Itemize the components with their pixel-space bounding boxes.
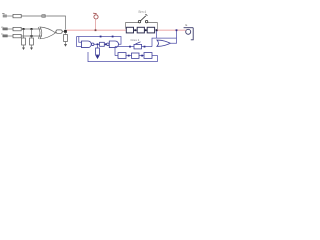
- relay contact bypass wire: [126, 23, 158, 30]
- junction node B: [31, 35, 33, 37]
- relay coil RL2: [137, 27, 144, 33]
- junction node A: [23, 28, 25, 30]
- resistor R1: [13, 14, 21, 17]
- resistor R2: [13, 27, 21, 30]
- wire S3 to R3: [8, 35, 14, 37]
- ground G4 (blue arrow): [96, 55, 99, 58]
- switch SW1 lever: [140, 14, 147, 21]
- wire G1 out to G2: [94, 43, 107, 45]
- wire R2 to gate: [21, 28, 41, 30]
- wire U1 output to RS1: [55, 31, 57, 34]
- relay coil RL3: [147, 27, 154, 33]
- wire S1 to R1: [7, 15, 13, 17]
- resistor R3: [13, 34, 21, 37]
- resistor R5 (vertical): [30, 38, 34, 45]
- wire RL1-RL2 with junction: [134, 29, 138, 31]
- wire rail junction down to loop right: [176, 30, 178, 38]
- svg-text:Cres 1: Cres 1: [131, 38, 140, 42]
- wire R6 to ground: [65, 42, 67, 45]
- junction node N2: [156, 29, 158, 31]
- junction: [128, 55, 130, 57]
- blue latch: left bracket wire: [77, 37, 82, 47]
- ground G1: [22, 48, 25, 51]
- bottom row wire: [115, 56, 158, 62]
- junction: [141, 55, 143, 57]
- wire RS1 to node N1: [62, 31, 65, 33]
- diode D1: [41, 14, 45, 17]
- svg-text:Brn 4: Brn 4: [139, 10, 147, 14]
- or gate G3: [157, 40, 170, 46]
- wire D1 to corner, down to node N1: [46, 16, 65, 30]
- input switch S3: [1, 32, 7, 37]
- blue mid wire with components: [115, 46, 152, 48]
- wire R5 to ground: [31, 45, 33, 48]
- box B1: [118, 53, 126, 59]
- resistor R6 (vertical below N1): [65, 33, 67, 35]
- variable resistor V1: [134, 44, 142, 49]
- nand gate G1: [82, 41, 94, 48]
- wire N2 down to loop: [156, 31, 158, 38]
- switch SW1 terminals: [138, 20, 148, 22]
- wire R3 to gate: [21, 35, 42, 37]
- input switch S1: [2, 13, 6, 17]
- loop wires around G3: [152, 38, 177, 47]
- ground G3: [64, 44, 67, 47]
- power rail (pink) N1 to lamp: [67, 29, 126, 31]
- wire node B down to R5: [31, 29, 33, 38]
- junction before G2: [105, 43, 107, 45]
- input switch S2: [1, 25, 7, 30]
- blue latch: top feedback wire: [77, 37, 122, 45]
- junction node B2 on row2: [31, 28, 33, 30]
- wire mid-to-bottom left: [114, 47, 116, 56]
- junction node N1: [64, 30, 67, 33]
- junction dots on top wire: [100, 36, 102, 38]
- svg-text:ls: ls: [185, 23, 188, 27]
- series box C1: [100, 42, 105, 46]
- junction on rail at P1: [95, 29, 97, 31]
- junction node N3: [97, 43, 99, 45]
- resistor RS1: [56, 30, 62, 33]
- vcc supply P1: [93, 13, 98, 19]
- box B2: [132, 53, 140, 58]
- xor gate U1: [38, 27, 55, 39]
- wire R1 right: [21, 15, 41, 17]
- resistor R4 (vertical): [22, 38, 26, 45]
- lamp M1: [184, 28, 194, 40]
- capacitor C2 (vertical) with lead: [97, 45, 99, 48]
- wire RL2-RL3 with junction: [145, 29, 148, 31]
- box B3: [144, 53, 152, 59]
- ground G2: [30, 48, 33, 51]
- relay coil RL1: [126, 27, 133, 33]
- wire S2 to R2: [8, 28, 14, 30]
- wire R4 to ground: [23, 45, 25, 48]
- blue bottom wire: [88, 52, 158, 62]
- wire node A down to R4: [23, 29, 25, 38]
- wire P1 stem to rail: [95, 19, 97, 30]
- junction dots mid wire: [129, 46, 131, 48]
- nand gate G2 (mirrored, bubble left): [107, 41, 119, 48]
